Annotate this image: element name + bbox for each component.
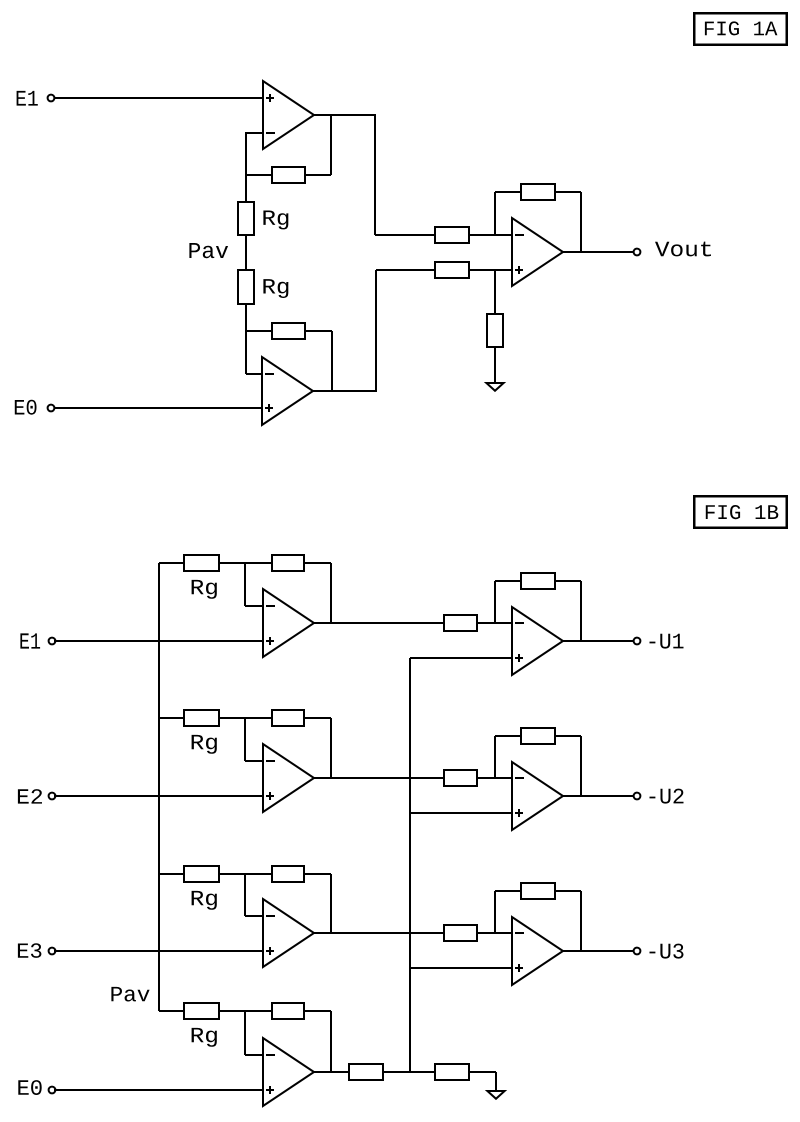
label Rg upper [263, 211, 288, 230]
terminal E2 [49, 793, 56, 800]
wire Rg to Rf (E3 row) [220, 873, 271, 875]
wire R1 right [306, 174, 331, 176]
wire Rf to output vertical (E0 row) [330, 1011, 332, 1072]
wire to R4 [376, 269, 434, 271]
terminal U3 [634, 948, 641, 955]
wire Ro1 to bus [384, 1071, 434, 1073]
resistor R5 (A3 feedback) [521, 184, 555, 200]
wire Ro2 right [470, 1071, 496, 1073]
resistor R3 (A3 inverting input) [435, 227, 469, 243]
wire A1 inverting input [246, 132, 263, 134]
resistor Rg upper [238, 202, 254, 235]
wire U2 output [563, 795, 634, 797]
op-amp B2 [263, 744, 314, 812]
wire Rf right (E0 row) [305, 1010, 331, 1012]
wire inverting input (E2 row) [245, 760, 263, 762]
resistor R6 (ground) [487, 314, 503, 347]
wire R5 to output vertical [580, 192, 582, 252]
label Rg (E3 row) [192, 891, 217, 910]
node E0 label [15, 400, 37, 415]
wire inverting input (E0 row) [245, 1054, 263, 1056]
resistor Rg lower [238, 270, 254, 304]
wire Rf to output vertical (E3 row) [330, 874, 332, 933]
resistor R1 (A1 feedback) [272, 167, 305, 183]
resistor Rf (E3 row feedback) [272, 866, 304, 882]
wire junction to inverting input (E0 row) [244, 1011, 246, 1055]
terminal U2 [634, 793, 641, 800]
wire E2 input [54, 795, 263, 797]
wire inverting input (E3 row) [245, 915, 263, 917]
wire feedback left vertical (U1) [494, 581, 496, 623]
node U1 label [650, 634, 684, 649]
FIG 1B label text [706, 505, 779, 519]
resistor Rf (U3 feedback) [521, 883, 555, 899]
wire Rf to output vertical (U3) [580, 891, 582, 951]
op-amp U1 stage [512, 607, 563, 675]
resistor Rf (U2 feedback) [521, 728, 555, 744]
wire non-inverting input from bus (U2) [410, 812, 512, 814]
wire E3 buffer output [314, 932, 443, 934]
op-amp B1 [263, 589, 314, 657]
terminal E0 [48, 405, 55, 412]
label Rg (E0 row) [192, 1028, 217, 1047]
wire Rf to output vertical (E1 row) [330, 563, 332, 623]
wire R5 right [556, 191, 581, 193]
wire Rf right (U3) [556, 890, 581, 892]
wire R3 to A3 [470, 234, 512, 236]
node E0 label [18, 1080, 41, 1095]
node E1 label [17, 91, 38, 106]
FIG 1A label box [694, 13, 787, 45]
resistor R2 (A2 feedback) [272, 323, 305, 339]
resistor Ri (U1 input) [444, 615, 477, 631]
wire Rg to Rf (E1 row) [220, 562, 271, 564]
wire R5 left [495, 191, 520, 193]
wire Rf left (U2) [495, 735, 520, 737]
wire Ri to op-amp (U1) [478, 622, 512, 624]
wire E1 input [54, 640, 263, 642]
wire A2 output up [375, 270, 377, 392]
wire Rf right (U1) [556, 580, 581, 582]
wire junction to inverting input (E1 row) [244, 563, 246, 606]
node E2 label [18, 789, 42, 804]
wire bus to Rg (E1 row) [159, 562, 183, 564]
wire Rf to output vertical (U1) [580, 581, 582, 641]
ground FIG 1B [487, 1091, 504, 1099]
resistor Rf (E1 row feedback) [272, 555, 304, 571]
wire bus to Rg (E0 row) [159, 1010, 183, 1012]
terminal U1 [634, 638, 641, 645]
wire non-inverting input from bus (U3) [410, 967, 512, 969]
wire U1 output [563, 640, 634, 642]
wire U3 output [563, 950, 634, 952]
resistor Rf (E2 row feedback) [272, 710, 304, 726]
wire R4 to A3 [470, 269, 512, 271]
resistor Rf (E0 row feedback) [272, 1003, 304, 1019]
wire E0 input [54, 407, 262, 409]
wire feedback left vertical (U3) [494, 891, 496, 933]
resistor Ro1 (B4 output) [349, 1064, 383, 1080]
bus common vertical (right) [409, 658, 411, 1072]
node Vout label [655, 242, 711, 257]
wire Ri to op-amp (U3) [478, 932, 512, 934]
wire ground branch down [494, 270, 496, 313]
wire R5 junction up [494, 192, 496, 235]
node U3 label [650, 944, 684, 959]
resistor Rg (E1 row) [184, 555, 219, 571]
wire A2 output [313, 390, 376, 392]
wire R2 to output vertical [331, 331, 333, 392]
wire Rf right (E1 row) [305, 562, 331, 564]
label Rg lower [263, 279, 288, 298]
terminal E3 [49, 948, 56, 955]
node E3 label [18, 943, 42, 958]
label Rg (E1 row) [192, 580, 217, 599]
resistor Rg (E3 row) [184, 866, 219, 882]
wire Rg lower to A2 [245, 305, 247, 374]
resistor Rf (U1 feedback) [521, 573, 555, 589]
op-amp U3 stage [512, 917, 563, 985]
wire Rg junction Pav [245, 236, 247, 269]
resistor Rg (E0 row) [184, 1003, 219, 1019]
wire Ri to op-amp (U2) [478, 777, 512, 779]
wire Rf right (E2 row) [305, 717, 331, 719]
wire E1 input [54, 97, 263, 99]
wire inverting input (E1 row) [245, 605, 263, 607]
resistor Ri (U3 input) [444, 925, 477, 941]
wire E2 buffer output [314, 777, 443, 779]
resistor Ri (U2 input) [444, 770, 477, 786]
bus Pav vertical (left) [158, 563, 160, 1011]
wire A2 inverting input [246, 373, 262, 375]
wire R2 right [306, 330, 332, 332]
wire B4 output [314, 1071, 348, 1073]
label Rg (E2 row) [192, 735, 217, 754]
node U2 label [650, 789, 684, 804]
wire Rf right (E3 row) [305, 873, 331, 875]
terminal E1 [49, 638, 56, 645]
resistor R4 (A3 non-inverting input) [435, 262, 469, 278]
terminal Vout [634, 249, 641, 256]
wire Vout output [563, 251, 634, 253]
wire bus to Rg (E2 row) [159, 717, 183, 719]
terminal E0 [49, 1087, 56, 1094]
wire A1 output down [374, 114, 376, 235]
FIG 1A label text [705, 21, 778, 35]
wire R1 to output vertical [330, 114, 332, 175]
wire Rf right (U2) [556, 735, 581, 737]
wire Rf left (U3) [495, 890, 520, 892]
wire Rf to output vertical (E2 row) [330, 718, 332, 778]
op-amp B4 [263, 1038, 314, 1106]
wire Rg to Rf (E0 row) [220, 1010, 271, 1012]
op-amp U2 stage [512, 762, 563, 830]
wire non-inverting input from bus (U1) [410, 657, 512, 659]
wire feedback left vertical (U2) [494, 736, 496, 778]
wire junction to inverting input (E2 row) [244, 718, 246, 761]
node E1 label [20, 633, 40, 648]
wire to R3 [375, 234, 434, 236]
wire R1 left [246, 174, 271, 176]
resistor Ro2 (to ground) [435, 1064, 469, 1080]
op-amp A2 [262, 357, 313, 425]
terminal E1 [48, 95, 55, 102]
op-amp A3 [512, 218, 563, 286]
wire E3 input [54, 950, 263, 952]
wire E1 buffer output [314, 622, 443, 624]
node Pav label [189, 243, 228, 258]
wire R6 to ground [494, 348, 496, 383]
op-amp B3 [263, 899, 314, 967]
ground FIG 1A [486, 383, 503, 391]
wire Rf left (U1) [495, 580, 520, 582]
FIG 1B label box [694, 496, 787, 528]
wire E0 input [54, 1089, 263, 1091]
wire A1 inv vertical [245, 132, 247, 201]
wire A1 output [314, 114, 375, 116]
wire Rf to output vertical (U2) [580, 736, 582, 796]
wire junction to inverting input (E3 row) [244, 874, 246, 916]
wire R2 left [246, 330, 271, 332]
wire bus to Rg (E3 row) [159, 873, 183, 875]
wire down to ground [495, 1072, 497, 1090]
resistor Rg (E2 row) [184, 710, 219, 726]
node Pav label (FIG 1B) [111, 987, 149, 1002]
wire Rg to Rf (E2 row) [220, 717, 271, 719]
op-amp A1 [263, 81, 314, 149]
